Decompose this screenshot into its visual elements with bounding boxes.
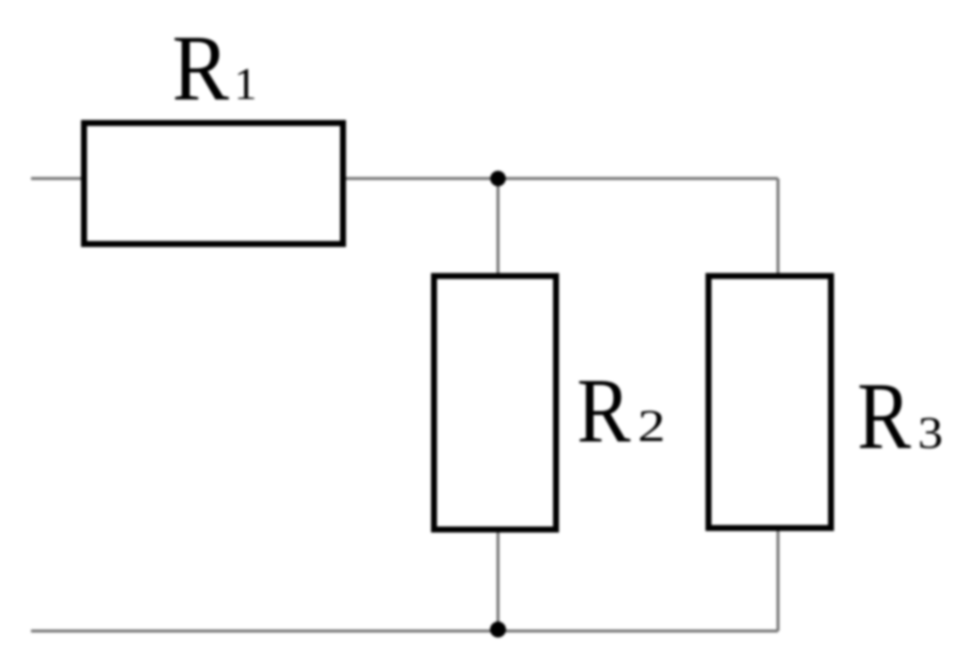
- wire: top-left lead into R1: [31, 177, 84, 180]
- resistor R1 body: [84, 123, 343, 244]
- wire: R3 bottom down to bottom rail: [777, 528, 780, 631]
- label R1: [172, 17, 257, 121]
- resistor R2 body: [434, 276, 556, 530]
- node A junction dot: [490, 171, 506, 187]
- node B junction dot: [490, 622, 506, 638]
- svg-text:3: 3: [918, 408, 943, 458]
- wire: R2 bottom to node B: [497, 530, 500, 632]
- svg-text:2: 2: [638, 401, 666, 451]
- label R3: [857, 365, 943, 470]
- wire: node A down to R2 top: [497, 179, 500, 277]
- wire: bottom rail: [31, 630, 778, 633]
- svg-text:R: R: [172, 17, 229, 121]
- svg-text:1: 1: [234, 58, 257, 109]
- resistor R3 body: [709, 276, 832, 528]
- svg-text:R: R: [857, 365, 911, 470]
- svg-text:R: R: [577, 360, 631, 462]
- wire: R1 output to node A and to R3 branch: [343, 177, 778, 180]
- label R2: [577, 360, 666, 462]
- wire: down to R3 top: [777, 179, 780, 277]
